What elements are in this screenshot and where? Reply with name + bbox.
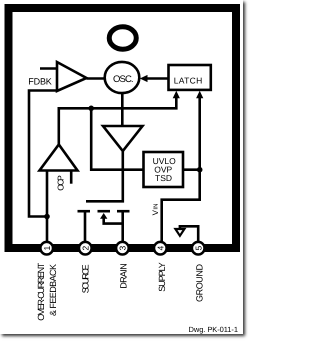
svg-text:OVER-CURRENT: OVER-CURRENT	[36, 262, 46, 321]
oscillator OSC	[105, 62, 140, 93]
wire: MOSFET source to pin 2	[84, 212, 87, 242]
wire: OCP output to latch set input	[59, 94, 177, 145]
MOSFET Q1	[78, 211, 130, 223]
node: feedback junction	[44, 214, 50, 220]
wire: UVLO output	[183, 168, 200, 171]
arrowhead into latch S input	[173, 91, 180, 99]
svg-text:SUPPLY: SUPPLY	[157, 262, 167, 292]
svg-text:OCP: OCP	[56, 175, 66, 191]
wire: pin 1 to OCP input	[46, 168, 49, 242]
pin 1 label OVER-CURRENT & FEEDBACK	[36, 262, 58, 321]
error amp U1	[57, 62, 87, 91]
svg-text:Dwg. PK-011-1: Dwg. PK-011-1	[189, 325, 239, 334]
wire: FDBK upper input	[40, 67, 58, 70]
logo ring	[109, 27, 136, 50]
pin 4	[154, 242, 167, 255]
svg-text:LATCH: LATCH	[174, 76, 203, 86]
arrowhead into latch R input	[196, 91, 203, 99]
svg-text:3: 3	[118, 246, 128, 251]
wire: feedback lower input	[29, 91, 58, 217]
svg-text:GROUND: GROUND	[195, 264, 205, 303]
svg-text:& FEEDBACK: & FEEDBACK	[48, 264, 58, 316]
wire: error amp output to OSC	[87, 77, 107, 80]
wire: junction to latch reset input	[198, 94, 201, 170]
pin 5	[192, 242, 205, 255]
wire: OCP reference stub	[70, 171, 73, 184]
IC package outline	[9, 8, 237, 248]
wire: driver output to MOSFET gate electrode	[86, 150, 123, 201]
svg-text:SOURCE: SOURCE	[81, 264, 91, 293]
svg-text:2: 2	[81, 246, 91, 251]
wire: supply pin 4 to junction	[162, 170, 200, 242]
VIN label	[151, 204, 160, 216]
svg-text:TSD: TSD	[155, 173, 172, 183]
svg-text:1: 1	[42, 246, 52, 251]
svg-text:4: 4	[156, 246, 166, 251]
comparator OCP	[40, 145, 78, 171]
wire: latch to OSC	[144, 77, 169, 80]
node: OCP line to UVLO junction	[88, 106, 94, 112]
svg-text:OSC.: OSC.	[113, 74, 134, 85]
svg-text:FDBK: FDBK	[28, 76, 52, 86]
pin 3	[116, 242, 129, 255]
node: UVLO output junction	[197, 167, 203, 173]
wire: junction to UVLO block	[91, 108, 143, 169]
arrowhead into OSC	[140, 75, 148, 82]
svg-text:5: 5	[193, 246, 203, 251]
wire: pin 5 to ground symbol	[180, 226, 198, 242]
gate driver	[103, 126, 143, 151]
pin 2	[79, 242, 92, 255]
UVLO OVP TSD block	[144, 152, 184, 187]
svg-text:DRAIN: DRAIN	[119, 263, 129, 289]
wire: OSC to gate driver	[121, 93, 124, 127]
latch box	[169, 65, 211, 90]
svg-text:IN: IN	[153, 204, 160, 210]
pin 1	[40, 242, 53, 255]
ground symbol	[175, 229, 184, 236]
wire: MOSFET drain to pin 3	[121, 212, 124, 242]
